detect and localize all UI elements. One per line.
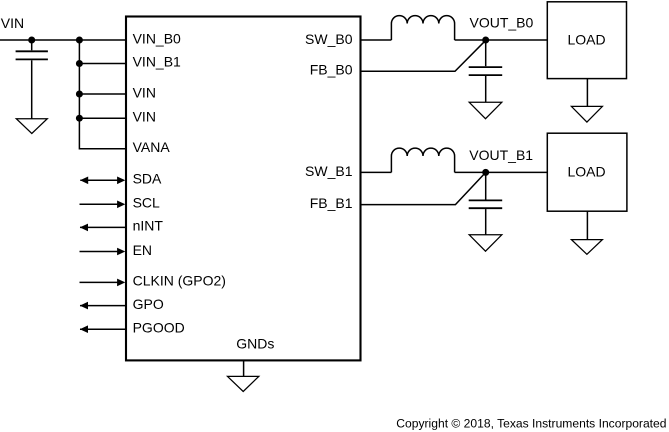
- svg-text:VIN: VIN: [133, 109, 156, 125]
- svg-text:SW_B1: SW_B1: [305, 163, 353, 179]
- svg-text:VOUT_B0: VOUT_B0: [470, 15, 534, 31]
- svg-text:VIN_B0: VIN_B0: [133, 31, 181, 47]
- svg-text:SW_B0: SW_B0: [305, 31, 353, 47]
- svg-text:VIN_B1: VIN_B1: [133, 54, 181, 70]
- svg-text:FB_B1: FB_B1: [310, 195, 353, 211]
- svg-text:FB_B0: FB_B0: [310, 62, 353, 78]
- svg-text:SCL: SCL: [133, 195, 160, 211]
- svg-text:Copyright © 2018, Texas Instru: Copyright © 2018, Texas Instruments Inco…: [396, 417, 666, 431]
- svg-text:SDA: SDA: [133, 171, 162, 187]
- svg-text:VOUT_B1: VOUT_B1: [469, 147, 533, 163]
- svg-text:VIN: VIN: [1, 15, 24, 31]
- svg-text:LOAD: LOAD: [567, 32, 605, 48]
- svg-text:VIN: VIN: [133, 85, 156, 101]
- svg-text:CLKIN (GPO2): CLKIN (GPO2): [133, 273, 226, 289]
- svg-text:VANA: VANA: [133, 139, 171, 155]
- svg-text:GPO: GPO: [133, 296, 164, 312]
- svg-text:GNDs: GNDs: [236, 336, 274, 352]
- svg-text:LOAD: LOAD: [567, 163, 605, 179]
- svg-text:nINT: nINT: [133, 218, 164, 234]
- svg-text:PGOOD: PGOOD: [133, 320, 185, 336]
- svg-text:EN: EN: [133, 242, 152, 258]
